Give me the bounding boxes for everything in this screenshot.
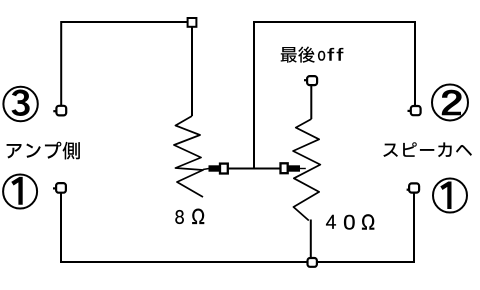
letter o of off [318,51,325,61]
omega of 8Ω [192,209,204,225]
circled number 3 (left top) [3,87,37,121]
omega of 40Ω [362,214,375,230]
resistor R1 8Ω zigzag [174,116,203,197]
digit 3 of circled 3 [12,90,30,117]
wire: resistor R2 bottom lead to bottom bus junction [310,220,312,260]
label アンプ側 (amp side) [7,142,80,160]
wiper arrow on R1: filled plug [203,169,209,170]
wire: from 最後off terminal down to resistor R2 top [310,84,312,119]
digit 4 of 40Ω [326,215,336,229]
circled number 1 (left bottom) [3,175,37,209]
circled number 2 (right top) [432,85,468,121]
circled number 1 (right bottom) [433,179,467,213]
digit 8 of 8Ω [175,210,184,224]
wire: bottom bus — terminal 1 left, across bottom, up to terminal 1 right [61,192,414,263]
wiper arrow on R2: open square [281,163,288,173]
wiper arrow on R2: filled plug [287,165,300,171]
wire: from square down to resistor R1 top [191,27,193,116]
digit 0 of 40Ω [344,215,355,230]
resistor R2 40Ω zigzag [293,119,320,221]
wire: wiper link between taps [228,168,281,170]
digit 1 of circled 1 right [440,182,451,210]
label 最後 (of 最後off) [281,46,315,62]
wiper arrow on R1: open square [220,164,228,174]
terminal lug (最後off contact) [304,76,317,85]
junction node on bottom bus [308,258,317,267]
digit 2 of circled 2 [442,90,462,116]
label スピーカへ (to speaker) [383,142,472,157]
letter f of off (1st) [327,48,334,61]
wire: left input top — from terminal 3 up and across to switch square [61,22,187,107]
terminal lug (input 1, left bottom) [53,183,66,193]
terminal lug (input 3, left top) [53,106,66,116]
letter f of off (2nd) [337,48,344,61]
terminal lug (output 1, right bottom) [407,183,420,192]
wire: centre tap bus up and over to terminal 2 [254,22,415,169]
digit 1 of circled 1 left [11,177,22,205]
terminal lug (output 2, right top) [408,106,421,115]
switch contact square (top) [188,18,197,27]
